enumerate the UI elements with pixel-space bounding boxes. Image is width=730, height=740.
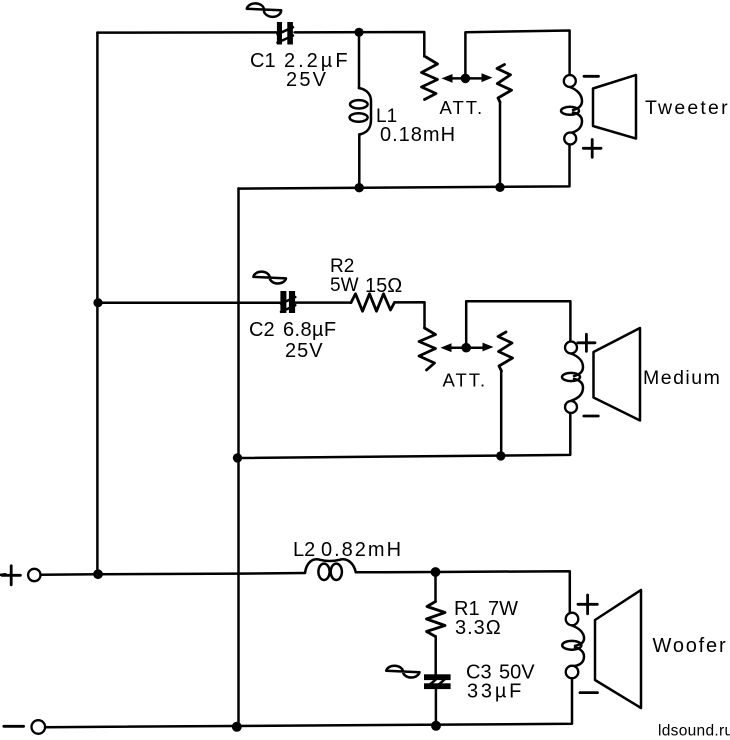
label tweeter minus [584,75,599,78]
wire input plus to L2 [41,573,305,575]
svg-text:3.3Ω: 3.3Ω [455,617,502,639]
wire tweeter bottom rail [239,145,570,189]
svg-text:33µF: 33µF [467,681,524,703]
potentiometer ATT tweeter [422,57,512,102]
inductor L2 [305,559,356,580]
wire medium ATT lower leg [500,371,503,456]
svg-text:0.18mH: 0.18mH [380,124,456,146]
svg-text:Medium: Medium [643,367,721,389]
wire tweeter feed top [97,32,424,57]
wire medium wiper to speaker [466,301,570,348]
svg-text:15Ω: 15Ω [365,275,402,297]
label R1 [454,598,518,639]
label medium minus [584,415,599,418]
svg-text:Woofer: Woofer [653,635,728,657]
label C1 value [284,50,351,91]
node tweeter ATT bottom [495,183,504,192]
svg-text:ldsound.ru: ldsound.ru [658,723,730,740]
node medium rail to bus [233,453,242,462]
svg-text:L2: L2 [293,539,315,561]
svg-text:25V: 25V [285,340,324,362]
node medium ATT bottom [496,451,505,460]
node return bus bottom [232,722,242,732]
wire medium bottom rail [239,413,571,458]
label tweeter plus [583,140,601,158]
svg-text:ATT.: ATT. [443,370,488,391]
svg-text:Tweeter: Tweeter [645,97,730,119]
label L2 [293,539,403,561]
speaker medium [562,328,640,421]
speaker woofer [562,590,641,708]
node input bus junction [93,569,103,579]
wire tweeter wiper to speaker [465,31,569,79]
node medium feed junction [93,298,102,307]
svg-text:C2: C2 [249,319,275,341]
node L2 output R1 branch [431,567,441,577]
node medium wiper [461,343,471,353]
label woofer minus [580,691,598,694]
svg-text:R2: R2 [330,256,354,277]
wire L2 to woofer speaker [356,571,570,612]
svg-text:C1: C1 [250,50,276,72]
terminal plus input [0,566,41,585]
label C2 value [283,319,337,362]
label L1 [376,106,456,146]
label C3 [466,662,535,703]
wire bottom rail [45,678,572,727]
node C1 L1 junction [354,28,363,37]
svg-text:5W: 5W [330,275,359,296]
svg-text:6.8µF: 6.8µF [283,319,337,341]
wire return bus vertical [237,188,240,726]
svg-text:ATT.: ATT. [440,97,485,118]
svg-text:25V: 25V [286,69,328,91]
speaker tweeter [561,75,636,145]
node tweeter wiper [461,74,471,84]
capacitor C1 [247,3,293,44]
wire left plus bus vertical [96,33,99,575]
node C3 bottom [431,721,441,731]
capacitor C3 [386,666,450,726]
terminal minus input [4,720,45,734]
potentiometer ATT medium [419,328,513,371]
label medium plus [578,334,595,351]
label woofer plus [578,595,597,614]
label R2 [330,256,402,297]
capacitor C2 [253,272,295,313]
inductor L1 [350,32,371,188]
node L1 bottom [355,183,364,192]
svg-text:0.82mH: 0.82mH [321,539,403,561]
resistor R1 [427,572,446,674]
wire medium feed [98,302,425,328]
wire tweeter ATT lower leg [499,102,502,187]
resistor R2 [351,294,395,311]
